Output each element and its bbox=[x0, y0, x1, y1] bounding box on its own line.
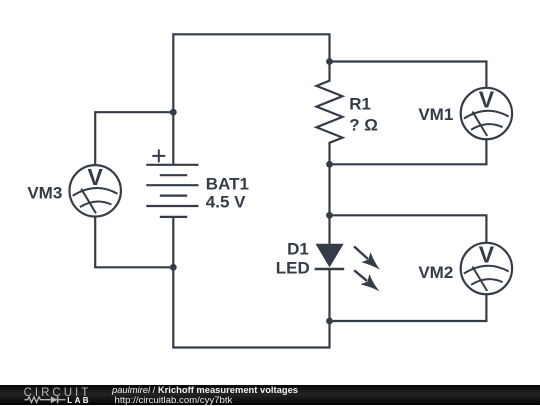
wire: VM2 top branch bbox=[330, 215, 487, 243]
wire: VM3 bottom branch bbox=[95, 216, 173, 267]
battery plus sign bbox=[152, 149, 165, 162]
node R1 top junction bbox=[326, 58, 333, 65]
footer bar bbox=[0, 385, 540, 406]
LED light arrow 1 bbox=[354, 246, 380, 269]
svg-text:VM1: VM1 bbox=[418, 105, 453, 124]
svg-text:BAT1: BAT1 bbox=[206, 174, 249, 193]
voltmeter VM2 bbox=[461, 242, 512, 295]
node battery-VM3 top junction bbox=[170, 109, 177, 116]
voltmeter VM1 bbox=[461, 87, 512, 140]
wire: VM1 bottom branch bbox=[330, 139, 487, 164]
svg-text:? Ω: ? Ω bbox=[349, 115, 378, 134]
CircuitLab logo bbox=[0, 385, 100, 406]
wire: battery top up, across top, down to node A bbox=[173, 34, 329, 165]
svg-text:LAB: LAB bbox=[67, 395, 91, 404]
wire: battery bottom down, bottom rail, up to LED bottom node bbox=[173, 217, 329, 348]
node LED top junction bbox=[326, 212, 333, 219]
svg-text:4.5 V: 4.5 V bbox=[206, 193, 246, 212]
voltmeter VM3 bbox=[70, 164, 121, 217]
LED D1 bbox=[315, 215, 345, 321]
footer caption text bbox=[112, 385, 298, 405]
wire: VM2 bottom branch bbox=[330, 294, 487, 321]
wire: VM3 top branch from node at battery column bbox=[95, 112, 173, 165]
wire: VM1 top branch bbox=[330, 62, 487, 89]
svg-text:VM3: VM3 bbox=[27, 184, 62, 203]
svg-text:VM2: VM2 bbox=[418, 263, 453, 282]
node battery-VM3 bottom junction bbox=[170, 264, 177, 271]
svg-text:D1: D1 bbox=[287, 239, 309, 258]
LED light arrow 2 bbox=[354, 270, 379, 291]
node R1 bottom junction bbox=[326, 161, 333, 168]
resistor R1 bbox=[317, 62, 343, 165]
svg-text:LED: LED bbox=[276, 258, 310, 277]
battery BAT1 bbox=[146, 165, 198, 217]
wire: segment between R1 bottom node and LED top node bbox=[328, 164, 330, 215]
node LED bottom junction bbox=[326, 318, 333, 325]
svg-text:R1: R1 bbox=[349, 94, 371, 113]
